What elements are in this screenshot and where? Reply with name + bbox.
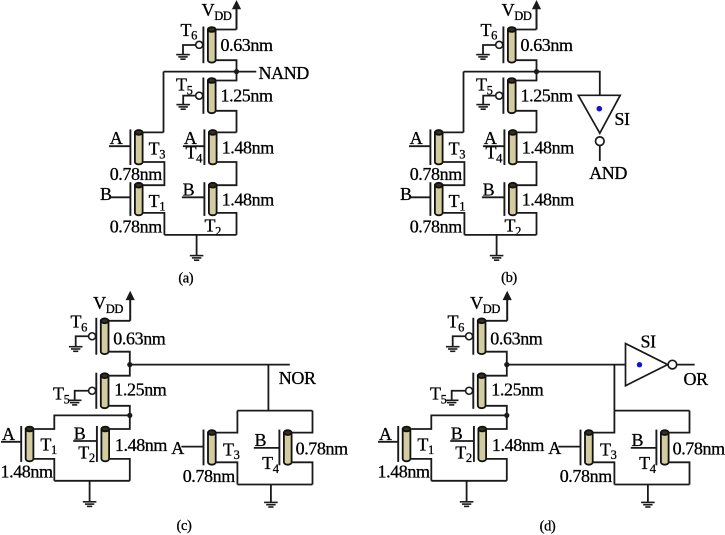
wire top rail to T3 drain (c) <box>216 411 237 433</box>
svg-text:B: B <box>483 179 495 199</box>
node node1 (c) (junction dot) <box>127 362 132 367</box>
svg-text:B: B <box>183 179 195 199</box>
wire inverter output (b) <box>599 146 601 161</box>
wire ground stem left (d) <box>466 481 468 502</box>
wire B to T4 gate (d) <box>631 447 657 449</box>
svg-text:1.48nm: 1.48nm <box>222 190 275 210</box>
ground T5 gate (b) <box>476 105 490 110</box>
transistor T5 (d) <box>466 373 486 409</box>
wire T4 source to rail (c) <box>292 462 313 484</box>
transistor T5 (b) <box>496 78 516 114</box>
ground T5 gate (a) <box>176 105 190 110</box>
svg-text:1.48nm: 1.48nm <box>522 190 575 210</box>
svg-text:1.48nm: 1.48nm <box>115 435 168 455</box>
wire node to T3 drain (b) <box>463 72 465 133</box>
svg-text:A: A <box>548 438 561 458</box>
wire bottom rail right (d) <box>614 484 689 486</box>
wire A to T1 gate (c) <box>1 441 21 443</box>
svg-text:OR: OR <box>684 369 709 389</box>
transistor T3 (a) <box>130 129 142 165</box>
transistor T6 (c) <box>89 318 109 355</box>
transistor T2 (b) <box>504 182 516 216</box>
transistor T6 (a) <box>196 27 216 64</box>
wire B to T1 gate (b) <box>410 196 430 198</box>
inverter SI (d) <box>626 344 668 386</box>
wire node to inverter (b) <box>464 72 600 96</box>
power VDD arrow (d) <box>503 291 512 300</box>
svg-text:0.63nm: 0.63nm <box>490 328 543 348</box>
svg-text:0.63nm: 0.63nm <box>521 35 574 55</box>
wire T5 source to node2 (c) <box>108 406 129 416</box>
wire T2 source to rail (d) <box>486 459 507 481</box>
wire bottom rail (a) <box>164 234 236 236</box>
svg-text:1.25nm: 1.25nm <box>491 380 544 400</box>
wire T6 gate to ground (c) <box>76 336 89 346</box>
ground supply (b) <box>490 256 504 261</box>
svg-text:0.78nm: 0.78nm <box>673 439 725 459</box>
svg-text:0.78nm: 0.78nm <box>110 216 163 236</box>
svg-text:1.25nm: 1.25nm <box>114 380 167 400</box>
wire T2 drain to node2 (c) <box>109 415 130 429</box>
wire pair top rail (d) <box>614 410 689 412</box>
wire ground stem right (c) <box>270 485 272 503</box>
wire B to T4 gate (c) <box>254 447 280 449</box>
wire T1 source to rail (d) <box>410 459 431 481</box>
wire A to T1 gate (d) <box>378 441 398 443</box>
wire top rail to T3 drain (d) <box>593 411 614 433</box>
wire T3 source to T1 drain (b) <box>443 162 465 185</box>
svg-text:1.48nm: 1.48nm <box>522 137 575 157</box>
power VDD arrow (a) <box>232 0 241 9</box>
wire bottom rail left (d) <box>431 480 507 482</box>
wire T6 gate to ground (d) <box>453 336 466 346</box>
wire node2 to T1 drain (c) <box>34 415 130 429</box>
inverter output bubble (d) <box>668 360 677 369</box>
wire B to T1 gate (a) <box>110 196 130 198</box>
wire ground stem left (c) <box>89 481 91 502</box>
wire inverter output (d) <box>677 364 695 366</box>
wire T4 drain (b) <box>517 131 537 133</box>
node NAND node (b) (junction dot) <box>534 69 539 74</box>
wire B to T2 gate (c) <box>73 440 97 442</box>
wire ground stem (b) <box>496 235 498 255</box>
svg-text:1.48nm: 1.48nm <box>492 435 545 455</box>
wire T2 source to rail (c) <box>109 459 130 481</box>
svg-text:AND: AND <box>589 163 627 183</box>
svg-text:0.78nm: 0.78nm <box>110 164 163 184</box>
wire T5 drain to node1 (c) <box>108 365 129 376</box>
transistor T5 (a) <box>196 78 216 114</box>
ground T6 gate (c) <box>69 347 83 352</box>
svg-text:B: B <box>400 184 412 204</box>
svg-text:1.48nm: 1.48nm <box>1 461 54 481</box>
node node2 (c) (junction dot) <box>127 413 132 418</box>
wire T5 drain to node1 (d) <box>485 365 506 376</box>
ground T5 gate (c) <box>68 400 82 405</box>
wire ground stem right (d) <box>647 485 649 503</box>
wire T5 source to T4 (a) <box>216 111 237 133</box>
wire B to T2 gate (b) <box>482 196 505 198</box>
wire T5 source to node2 (d) <box>485 406 506 416</box>
wire T2 source to rail (a) <box>217 213 237 235</box>
wire bottom rail left (c) <box>54 480 130 482</box>
wire B to T2 gate (d) <box>450 440 474 442</box>
wire T2 drain to node2 (d) <box>486 415 507 429</box>
wire T6 source to node1 (c) <box>108 352 129 365</box>
node NAND output (a) (junction dot) <box>234 69 239 74</box>
ground T6 gate (a) <box>176 55 190 60</box>
wire bottom rail (b) <box>464 234 536 236</box>
svg-text:A: A <box>410 128 423 148</box>
wire T3 source to rail (c) <box>216 462 238 484</box>
transistor T3 (c) <box>204 430 216 466</box>
wire bottom rail right (c) <box>237 484 312 486</box>
svg-text:(d): (d) <box>540 519 556 535</box>
transistor T3 (d) <box>581 430 593 466</box>
transistor T3 (b) <box>430 129 442 165</box>
wire A to T4 gate (a) <box>183 145 205 147</box>
node node1 (d) (junction dot) <box>504 362 509 367</box>
svg-text:1.25nm: 1.25nm <box>221 86 274 106</box>
svg-text:(c): (c) <box>177 518 192 534</box>
wire T5 gate to ground (d) <box>452 391 466 400</box>
wire T5 source to T4 (b) <box>516 111 537 133</box>
wire pair top rail (c) <box>237 410 312 412</box>
wire T5 gate to ground (a) <box>183 96 196 105</box>
transistor T1 (b) <box>430 182 442 216</box>
transistor T4 (b) <box>504 129 516 165</box>
wire T6 source to node (b) <box>516 60 537 71</box>
transistor T4 (d) <box>656 430 668 466</box>
svg-text:NOR: NOR <box>279 368 316 388</box>
wire T4 source to T2 drain (b) <box>517 162 537 185</box>
wire T5 drain to node (b) <box>516 72 537 81</box>
wire NOR output rail (c) <box>130 364 290 366</box>
wire B to T2 gate (a) <box>182 196 205 198</box>
svg-text:B: B <box>100 184 112 204</box>
inverter output bubble (b) <box>596 137 605 146</box>
wire T6 source to node1 (d) <box>485 352 506 365</box>
wire T4 drain to top rail (d) <box>669 411 690 433</box>
wire T1 source to rail (a) <box>143 213 165 235</box>
ground supply left (d) <box>460 502 474 507</box>
wire node1 to inverter (d) <box>507 364 626 366</box>
wire T3 drain (a) <box>143 131 164 133</box>
ground supply right (c) <box>264 502 278 507</box>
wire T6 source to node (a) <box>216 60 237 71</box>
transistor T2 (c) <box>97 426 109 462</box>
power VDD arrow (b) <box>532 0 541 9</box>
svg-text:0.78nm: 0.78nm <box>183 466 236 486</box>
ground T5 gate (d) <box>445 400 459 405</box>
wire node2 to T1 drain (d) <box>411 415 507 429</box>
node node2 (d) (junction dot) <box>504 413 509 418</box>
ground supply left (c) <box>83 502 97 507</box>
svg-text:0.78nm: 0.78nm <box>410 164 463 184</box>
wire node to T3 drain (a) <box>163 72 165 133</box>
svg-text:1.48nm: 1.48nm <box>222 137 275 157</box>
wire T4 source to T2 drain (a) <box>217 162 237 185</box>
wire NAND output rail (a) <box>164 71 257 73</box>
svg-text:A: A <box>110 128 123 148</box>
wire T3 source to rail (d) <box>593 462 615 484</box>
wire T2 source to rail (b) <box>517 213 537 235</box>
svg-text:SI: SI <box>614 109 630 129</box>
svg-text:0.63nm: 0.63nm <box>113 328 166 348</box>
svg-text:0.63nm: 0.63nm <box>221 35 274 55</box>
wire T4 drain (a) <box>217 131 237 133</box>
inverter SI (b) <box>578 95 620 133</box>
svg-text:1.48nm: 1.48nm <box>378 461 431 481</box>
wire T4 drain to top rail (c) <box>292 411 313 433</box>
svg-text:A: A <box>171 438 184 458</box>
wire A to T3 gate (a) <box>109 145 130 147</box>
wire ground stem (a) <box>196 235 198 255</box>
wire T3 source to T1 drain (a) <box>143 162 165 185</box>
transistor T1 (d) <box>398 426 410 462</box>
wire T3 drain (b) <box>443 131 464 133</box>
wire T5 gate to ground (b) <box>483 96 496 105</box>
transistor T4 (c) <box>279 430 291 466</box>
power VDD arrow (c) <box>126 291 135 300</box>
svg-text:0.78nm: 0.78nm <box>560 466 613 486</box>
ground supply right (d) <box>641 502 655 507</box>
transistor T6 (d) <box>466 318 486 355</box>
transistor T5 (c) <box>89 373 109 409</box>
transistor T4 (a) <box>204 129 216 165</box>
svg-text:SI: SI <box>641 332 657 352</box>
wire A to T3 gate (d) <box>558 446 580 448</box>
ground supply (a) <box>190 256 204 261</box>
wire T4 source to rail (d) <box>669 462 690 484</box>
svg-text:0.78nm: 0.78nm <box>410 216 463 236</box>
wire A to T3 gate (b) <box>409 145 430 147</box>
transistor T2 (a) <box>204 182 216 216</box>
svg-text:(a): (a) <box>178 271 193 287</box>
transistor T1 (a) <box>130 182 142 216</box>
wire T5 gate to ground (c) <box>75 391 89 400</box>
svg-text:0.78nm: 0.78nm <box>296 439 349 459</box>
wire T6 gate to ground (b) <box>483 45 496 54</box>
SI marker dot (d) <box>637 362 642 367</box>
wire node rail to pair (d) <box>613 365 615 411</box>
transistor T6 (b) <box>496 27 516 64</box>
SI marker dot (b) <box>597 106 603 112</box>
wire T6 gate to ground (a) <box>183 45 196 54</box>
wire A to T4 gate (b) <box>483 145 505 147</box>
transistor T1 (c) <box>21 426 33 462</box>
svg-text:NAND: NAND <box>259 63 310 83</box>
ground T6 gate (b) <box>476 55 490 60</box>
wire T1 source to rail (c) <box>33 459 54 481</box>
transistor T2 (d) <box>474 426 486 462</box>
svg-text:1.25nm: 1.25nm <box>521 86 574 106</box>
wire T5 drain to node (a) <box>216 72 237 81</box>
wire NOR rail to pair (c) <box>267 365 269 411</box>
wire T1 source to rail (b) <box>443 213 465 235</box>
svg-text:(b): (b) <box>501 270 517 286</box>
ground T6 gate (d) <box>446 347 460 352</box>
wire A to T3 gate (c) <box>181 446 203 448</box>
